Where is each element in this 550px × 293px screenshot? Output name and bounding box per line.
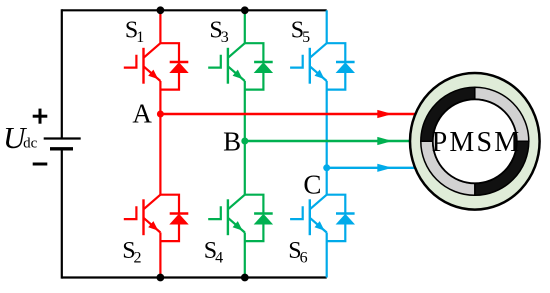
wire: phase B leg middle (upper IGBT emitter through node B to lower IGBT collector) bbox=[244, 81, 246, 195]
junction dot: bottom rail / S4 leg bbox=[241, 274, 249, 282]
svg-text:S4: S4 bbox=[204, 238, 223, 267]
svg-text:S1: S1 bbox=[125, 18, 144, 47]
wire: phase C leg middle (upper IGBT emitter through node C to lower IGBT collector) bbox=[326, 81, 328, 195]
freewheeling diode of S2 bbox=[160, 195, 188, 241]
svg-text:Udc: Udc bbox=[3, 120, 38, 155]
arrow on phase A line bbox=[377, 110, 392, 118]
svg-text:S2: S2 bbox=[122, 238, 141, 267]
transistor S6 (IGBT) bbox=[290, 195, 327, 236]
junction dot: top rail / S3 leg bbox=[241, 6, 249, 14]
svg-text:A: A bbox=[132, 98, 152, 128]
freewheeling diode of S3 bbox=[245, 43, 273, 89]
transistor S4 (IGBT) bbox=[208, 195, 245, 236]
motor PMSM: stator ring quadrant bottom-left (gray) bbox=[421, 141, 475, 195]
transistor S3 (IGBT) bbox=[208, 43, 245, 83]
wire: bottom DC- rail bbox=[62, 276, 327, 278]
wire: top DC+ rail bbox=[62, 9, 327, 11]
wire: phase C output line bbox=[327, 167, 416, 169]
minus sign of DC source bbox=[33, 163, 48, 166]
wire: left rail upper (DC+ to battery) bbox=[61, 9, 63, 138]
freewheeling diode of S5 bbox=[327, 43, 355, 89]
wire: phase A output line bbox=[160, 113, 416, 115]
motor PMSM: outer housing bbox=[410, 73, 540, 210]
svg-text:C: C bbox=[303, 170, 321, 200]
wire: phase B output line bbox=[245, 140, 412, 142]
wire: phase A leg middle (upper IGBT emitter through node A to lower IGBT collector) bbox=[159, 81, 161, 195]
svg-text:PMSM: PMSM bbox=[432, 127, 522, 158]
svg-text:S6: S6 bbox=[288, 238, 307, 267]
svg-text:S3: S3 bbox=[209, 18, 228, 47]
junction dot: top rail / S1 leg bbox=[157, 6, 165, 14]
plus sign of DC source bbox=[33, 109, 48, 124]
node B junction dot bbox=[241, 138, 248, 145]
wire: left rail lower (battery to DC- rail) bbox=[61, 149, 63, 279]
wire: phase B leg upper (DC+ rail to upper IGBT collector) bbox=[244, 10, 246, 43]
wire: phase C leg upper (DC+ rail to upper IGBT collector) bbox=[326, 10, 328, 43]
freewheeling diode of S4 bbox=[245, 195, 273, 241]
transistor S5 (IGBT) bbox=[290, 43, 327, 83]
junction dot: bottom rail / S2 leg bbox=[157, 274, 165, 282]
transistor S2 (IGBT) bbox=[124, 195, 161, 236]
motor PMSM: stator ring quadrant bottom-right (black) bbox=[475, 141, 529, 195]
battery Udc: short (-) plate bbox=[50, 147, 73, 150]
battery Udc: long (+) plate bbox=[44, 137, 81, 139]
arrow on phase C line bbox=[377, 164, 392, 172]
wire: phase C leg lower (lower IGBT emitter to DC- rail) bbox=[326, 233, 328, 278]
wire: phase B leg lower (lower IGBT emitter to DC- rail) bbox=[244, 233, 246, 278]
motor PMSM: stator ring quadrant top-left (black) bbox=[421, 87, 475, 141]
svg-text:S5: S5 bbox=[291, 18, 310, 47]
node C junction dot bbox=[323, 164, 330, 171]
node A junction dot bbox=[157, 111, 164, 118]
freewheeling diode of S1 bbox=[160, 43, 188, 89]
wire: phase A leg lower (lower IGBT emitter to DC- rail) bbox=[159, 233, 161, 278]
freewheeling diode of S6 bbox=[327, 195, 355, 241]
svg-text:B: B bbox=[223, 127, 241, 157]
arrow on phase B line bbox=[377, 137, 392, 145]
transistor S1 (IGBT) bbox=[124, 43, 161, 83]
motor PMSM: rotor inner circle bbox=[433, 99, 517, 183]
motor PMSM: stator ring quadrant top-right (gray) bbox=[475, 87, 529, 141]
wire: phase A leg upper (DC+ rail to upper IGBT collector) bbox=[159, 10, 161, 43]
